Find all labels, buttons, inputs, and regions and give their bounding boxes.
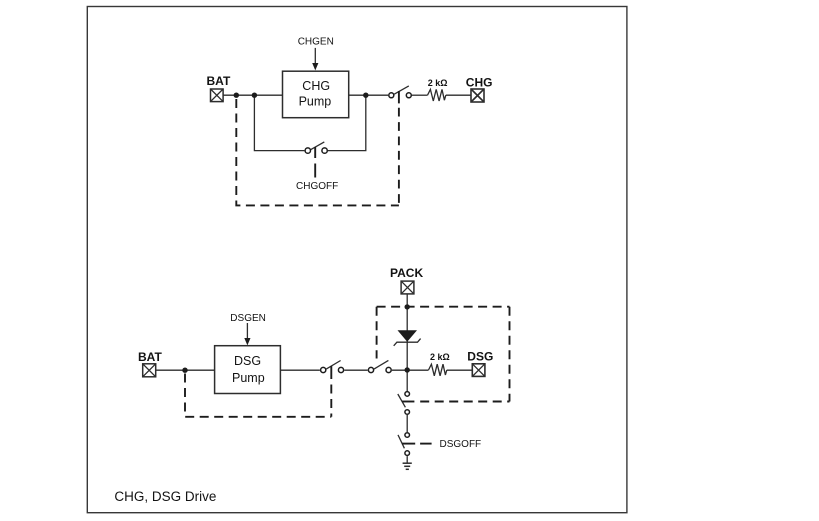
svg-text:CHG: CHG [302, 79, 330, 93]
svg-text:Pump: Pump [299, 94, 332, 108]
svg-text:BAT: BAT [138, 350, 162, 364]
svg-text:DSGEN: DSGEN [230, 313, 266, 324]
svg-text:Pump: Pump [232, 371, 265, 385]
svg-text:PACK: PACK [390, 266, 423, 280]
svg-text:2 kΩ: 2 kΩ [428, 78, 448, 88]
svg-text:DSG: DSG [234, 354, 261, 368]
svg-text:CHGOFF: CHGOFF [296, 181, 338, 192]
svg-text:CHG: CHG [466, 75, 493, 89]
svg-text:CHG, DSG Drive: CHG, DSG Drive [114, 489, 216, 504]
svg-text:CHGEN: CHGEN [298, 37, 334, 48]
svg-text:2 kΩ: 2 kΩ [430, 352, 450, 362]
svg-text:DSG: DSG [467, 349, 493, 363]
svg-text:DSGOFF: DSGOFF [440, 439, 482, 450]
svg-text:BAT: BAT [207, 74, 231, 88]
